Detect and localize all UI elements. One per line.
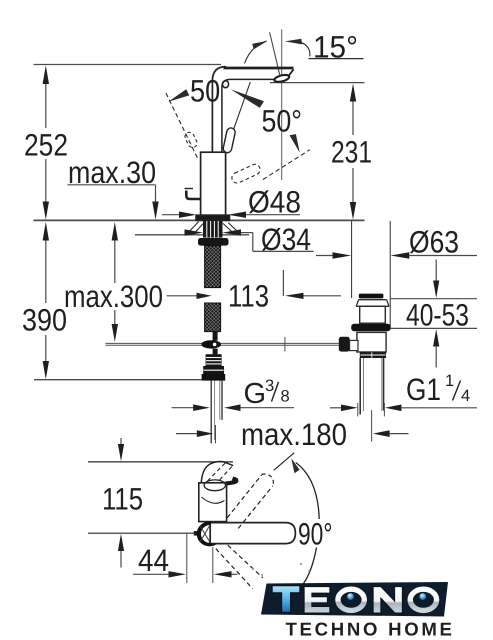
LOGO TEONO bbox=[261, 582, 455, 640]
braided hoses bbox=[205, 246, 221, 288]
top reference line (spout height) bbox=[34, 64, 222, 66]
svg-text:max.300: max.300 bbox=[64, 279, 163, 314]
letter N bbox=[373, 587, 403, 614]
dashed handle bbox=[208, 463, 226, 481]
badge background bbox=[261, 582, 448, 617]
svg-text:G: G bbox=[244, 378, 267, 410]
pull rod tee bbox=[213, 332, 218, 341]
locknut bbox=[351, 324, 390, 331]
aerator bbox=[274, 74, 290, 83]
DRAIN ASSEMBLY bbox=[339, 221, 391, 415]
handle bar thick bbox=[207, 478, 237, 486]
dimension 40-53 bbox=[390, 260, 477, 368]
body lower bbox=[357, 332, 386, 352]
counter hatch bbox=[187, 222, 240, 235]
dimension 44 bbox=[133, 533, 238, 583]
lever dashed right (pulled) bbox=[230, 163, 262, 185]
body upper bbox=[360, 306, 386, 323]
90deg arc bbox=[296, 463, 319, 520]
supply connector block bbox=[202, 354, 226, 380]
counter underside line bbox=[135, 234, 249, 236]
letter O1 bbox=[334, 586, 368, 614]
mounting plane line bbox=[34, 219, 365, 221]
riser pipe outer curve and spout top bbox=[212, 67, 226, 153]
svg-text:Ø34: Ø34 bbox=[261, 222, 311, 257]
dimension 252 bbox=[43, 65, 49, 219]
bottom cap threaded bbox=[360, 352, 386, 358]
riser inner curve and spout underside bbox=[222, 79, 275, 152]
flange bbox=[356, 300, 389, 307]
svg-text:max.180: max.180 bbox=[241, 417, 347, 452]
svg-text:40-53: 40-53 bbox=[406, 298, 469, 333]
tailpipe bbox=[359, 358, 361, 415]
body cylinder bbox=[201, 152, 226, 215]
axis line to arc bbox=[274, 453, 294, 470]
tick on rod line bbox=[284, 337, 286, 352]
lever dashed left bbox=[183, 131, 198, 149]
svg-text:3: 3 bbox=[265, 377, 274, 395]
svg-text:4: 4 bbox=[461, 387, 470, 405]
side port bbox=[339, 337, 350, 352]
letter E bbox=[304, 587, 330, 614]
svg-text:Ø63: Ø63 bbox=[409, 225, 459, 260]
svg-text:90°: 90° bbox=[298, 517, 333, 552]
G3/8 tube bbox=[211, 381, 222, 444]
base plate bbox=[196, 215, 230, 220]
label 15deg with arcs bbox=[245, 30, 364, 181]
letter O2 bbox=[406, 586, 440, 614]
svg-text:252: 252 bbox=[24, 128, 68, 163]
dimension Ø63 bbox=[316, 252, 477, 258]
svg-text:44: 44 bbox=[138, 543, 169, 578]
extension line spout axis level bbox=[88, 532, 199, 534]
mounting nut bbox=[198, 238, 229, 246]
svg-text:15°: 15° bbox=[313, 30, 358, 65]
shank threaded through counter bbox=[187, 220, 240, 245]
label G1 1/4 bbox=[330, 403, 477, 417]
svg-text:1: 1 bbox=[445, 372, 454, 390]
dimension 113 bbox=[167, 270, 342, 299]
dashed spout down position bbox=[216, 549, 253, 589]
spout horizontal bbox=[210, 523, 295, 544]
svg-text:G1: G1 bbox=[406, 372, 441, 407]
pull rod horizontal line bbox=[106, 342, 339, 344]
plug top bbox=[359, 294, 384, 299]
pull rod knob left of body bbox=[186, 191, 200, 200]
svg-text:115: 115 bbox=[102, 482, 143, 517]
BOTTOM VIEW bbox=[88, 462, 233, 533]
dimension 231 bbox=[270, 83, 365, 220]
svg-text:113: 113 bbox=[228, 279, 269, 314]
body front bbox=[199, 483, 227, 522]
dust specks bbox=[252, 563, 310, 576]
lever solid bbox=[222, 127, 235, 153]
dimension Ø34 bbox=[185, 229, 314, 251]
svg-text:231: 231 bbox=[331, 135, 372, 170]
handle curve bbox=[201, 462, 233, 484]
lever axis dashed left bbox=[166, 93, 199, 160]
extension lines bbox=[351, 221, 353, 298]
svg-text:8: 8 bbox=[281, 388, 290, 406]
label G 3/8 bbox=[172, 404, 294, 411]
svg-text:50°: 50° bbox=[262, 104, 303, 139]
lower reference line (390) bbox=[34, 379, 202, 381]
dashed spout up position bbox=[227, 475, 261, 518]
svg-text:390: 390 bbox=[22, 303, 67, 338]
dimension 390 bbox=[43, 222, 49, 379]
extension line spout tip level bbox=[88, 461, 233, 463]
svg-text:TECHNO HOME: TECHNO HOME bbox=[286, 619, 455, 640]
spout tip slant bbox=[289, 69, 294, 75]
dimension max.180 bbox=[176, 410, 409, 443]
faucet body main view bbox=[185, 67, 294, 221]
dimension 115 bbox=[118, 438, 124, 568]
svg-text:50°: 50° bbox=[190, 74, 231, 109]
dimension max.300 bbox=[112, 222, 118, 342]
lever axis solid bbox=[225, 82, 250, 153]
pivot ring bbox=[199, 523, 220, 544]
letter T blue bbox=[272, 586, 300, 613]
bottom view faucet bbox=[198, 453, 319, 589]
